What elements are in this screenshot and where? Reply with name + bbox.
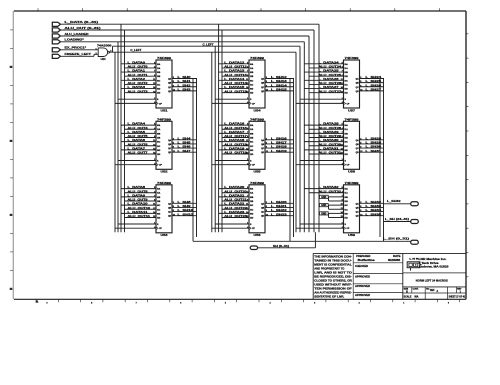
svg-text:REF: REF <box>430 290 435 292</box>
svg-text:L_DATA5: L_DATA5 <box>128 130 146 134</box>
svg-text:I0B: I0B <box>250 133 254 135</box>
svg-text:GND: GND <box>321 197 326 199</box>
svg-text:L_DATA16: L_DATA16 <box>224 122 245 126</box>
svg-text:I0D: I0D <box>345 89 349 91</box>
svg-text:8/26/86: 8/26/86 <box>388 259 401 262</box>
svg-text:ALU_OUT3: ALU_OUT3 <box>128 89 149 93</box>
svg-text:I1A: I1A <box>250 128 254 131</box>
output connector SH (0..31) <box>250 244 289 250</box>
svg-text:I1B: I1B <box>250 201 254 203</box>
svg-text:QA: QA <box>356 78 360 81</box>
svg-text:I0A: I0A <box>157 63 161 66</box>
svg-text:I1B: I1B <box>345 201 349 203</box>
svg-text:ALU_OUT8: ALU_OUT8 <box>128 189 149 193</box>
svg-text:I0D: I0D <box>345 213 349 215</box>
wire C_LEFT (gate output net) <box>110 46 301 232</box>
register U54 74F399 (column 2 row 1) <box>212 56 294 112</box>
svg-text:I0B: I0B <box>157 133 161 135</box>
wire FREEZE_LEFT to U24 pin 2 <box>61 54 99 56</box>
svg-text:ALU_OUT10: ALU_OUT10 <box>128 206 151 210</box>
svg-text:74F399: 74F399 <box>345 181 360 185</box>
svg-text:I1D: I1D <box>157 218 161 220</box>
svg-text:L_DATA4: L_DATA4 <box>128 122 146 126</box>
svg-text:ALU_OUT21: ALU_OUT21 <box>224 198 247 202</box>
svg-text:I1D: I1D <box>345 218 349 220</box>
svg-text:I0A: I0A <box>345 124 349 127</box>
svg-text:APPROVED: APPROVED <box>355 275 370 278</box>
svg-text:ALU_OUT14: ALU_OUT14 <box>224 81 247 85</box>
svg-text:NORM LEFT 24 MACROS: NORM LEFT 24 MACROS <box>416 278 448 282</box>
register U59 74F399 (column 3 row 3) <box>296 181 384 237</box>
svg-text:QC: QC <box>356 212 360 214</box>
svg-text:I0D: I0D <box>250 89 254 91</box>
svg-text:ALU_OUT24: ALU_OUT24 <box>319 65 342 69</box>
wire bus SH (0..31) <box>258 232 316 248</box>
svg-text:ALU_OUT30: ALU_OUT30 <box>319 142 342 146</box>
svg-text:L_DATA9: L_DATA9 <box>128 193 146 197</box>
svg-text:I0A: I0A <box>250 124 254 127</box>
svg-text:I1B: I1B <box>157 137 161 139</box>
svg-text:QC: QC <box>356 87 360 89</box>
size/ref/rev row <box>404 287 462 294</box>
svg-text:ALU_OUT31: ALU_OUT31 <box>319 151 342 155</box>
svg-text:QB: QB <box>168 83 172 85</box>
svg-text:FREEZE_LEFT: FREEZE_LEFT <box>65 52 92 56</box>
svg-text:I0D: I0D <box>157 150 161 152</box>
svg-text:L_DATA27: L_DATA27 <box>319 85 340 89</box>
svg-text:2: 2 <box>359 303 360 305</box>
svg-text:I1C: I1C <box>250 84 254 86</box>
svg-text:I0D: I0D <box>157 89 161 91</box>
svg-text:ALU_OUT12: ALU_OUT12 <box>224 65 247 69</box>
svg-text:I1D: I1D <box>250 154 254 156</box>
svg-text:QA: QA <box>168 139 172 142</box>
svg-text:QB: QB <box>261 207 265 209</box>
svg-text:L_SH4: L_SH4 <box>178 136 192 140</box>
svg-text:QD: QD <box>356 216 360 218</box>
svg-text:SH (0..31): SH (0..31) <box>273 244 289 248</box>
company logo LNR <box>407 259 421 271</box>
svg-text:L_DATA3: L_DATA3 <box>128 85 146 89</box>
svg-text:I0D: I0D <box>250 150 254 152</box>
svg-text:U54: U54 <box>254 108 262 112</box>
output connector L_SH32 <box>387 199 418 206</box>
svg-text:74F399: 74F399 <box>157 56 172 60</box>
svg-text:ALU_OUT7: ALU_OUT7 <box>128 151 149 155</box>
svg-text:I1D: I1D <box>250 218 254 220</box>
svg-text:I1A: I1A <box>157 67 161 70</box>
svg-text:U57: U57 <box>348 108 356 112</box>
svg-text:74F399: 74F399 <box>250 181 265 185</box>
svg-text:SHEET 27 OF 41: SHEET 27 OF 41 <box>449 296 466 299</box>
svg-text:L_DATA22: L_DATA22 <box>224 202 245 206</box>
nand gate U24 74AS000 <box>96 43 113 61</box>
svg-text:ALU_OUT19: ALU_OUT19 <box>224 151 247 155</box>
svg-text:ALU_OUT17: ALU_OUT17 <box>224 134 247 138</box>
input connector P5 EX_PROC1* <box>52 46 87 52</box>
svg-text:U24: U24 <box>101 57 106 61</box>
legal notice text <box>314 255 352 299</box>
svg-text:I0C: I0C <box>157 205 161 207</box>
svg-text:74F399: 74F399 <box>157 181 172 185</box>
input connector P6 FREEZE_LEFT <box>52 52 91 58</box>
output connector L_SH (0..31) <box>383 237 418 245</box>
svg-text:U52: U52 <box>161 170 169 174</box>
svg-text:ALU_OUT18: ALU_OUT18 <box>224 142 247 146</box>
svg-text:ALU_LOADED: ALU_LOADED <box>65 32 89 36</box>
svg-text:ALU_OUT25: ALU_OUT25 <box>319 73 342 77</box>
svg-text:U51: U51 <box>161 108 169 112</box>
svg-text:L_DATA0: L_DATA0 <box>128 60 146 64</box>
svg-text:QB: QB <box>261 144 265 146</box>
svg-text:I1D: I1D <box>250 93 254 95</box>
svg-text:L_SH8: L_SH8 <box>178 200 192 204</box>
register U58 74F399 (column 3 row 2) <box>296 117 384 173</box>
wire bus L_SH (0..31) to output connector <box>193 240 411 242</box>
svg-text:QC: QC <box>356 148 360 150</box>
svg-text:QD: QD <box>168 216 172 218</box>
sheet title <box>416 278 448 282</box>
svg-text:L_DATA8: L_DATA8 <box>128 185 146 189</box>
svg-text:L_DATA18: L_DATA18 <box>224 138 245 142</box>
svg-text:I0B: I0B <box>345 72 349 74</box>
svg-text:I1B: I1B <box>250 137 254 139</box>
svg-text:6: 6 <box>180 303 181 305</box>
svg-text:ALU_OUT9: ALU_OUT9 <box>128 198 149 202</box>
svg-text:ALU_OUT5: ALU_OUT5 <box>128 134 149 138</box>
svg-text:I1C: I1C <box>250 146 254 148</box>
svg-text:I1A: I1A <box>157 192 161 195</box>
svg-text:L_SH18: L_SH18 <box>271 145 288 149</box>
register U52 74F399 (column 1 row 2) <box>115 117 197 173</box>
title block <box>313 253 466 299</box>
svg-text:U59: U59 <box>348 233 356 237</box>
svg-text:L_DATA25: L_DATA25 <box>319 69 340 73</box>
svg-text:I1B: I1B <box>157 201 161 203</box>
svg-text:QA: QA <box>356 139 360 142</box>
svg-text:I0B: I0B <box>157 197 161 199</box>
svg-text:QB: QB <box>168 144 172 146</box>
svg-text:L_SH2: L_SH2 <box>178 83 192 87</box>
company address <box>419 257 450 268</box>
svg-text:L_DATA2: L_DATA2 <box>128 77 146 81</box>
svg-text:U55: U55 <box>254 170 262 174</box>
svg-text:L_DATA21: L_DATA21 <box>224 193 245 197</box>
svg-text:7: 7 <box>136 303 137 305</box>
svg-text:I0C: I0C <box>250 80 254 82</box>
wire L_SH (24..31) to connector <box>384 221 411 223</box>
svg-text:GND: GND <box>321 205 326 207</box>
svg-text:L_SH (0..31): L_SH (0..31) <box>383 237 409 241</box>
register U51 74F399 (column 1 row 1) <box>115 56 197 112</box>
svg-text:QB: QB <box>261 83 265 85</box>
register U56 74F399 (column 2 row 3) <box>212 181 294 237</box>
svg-text:ALU_OUT11: ALU_OUT11 <box>128 214 151 218</box>
svg-text:Andover, MA 01810: Andover, MA 01810 <box>419 266 450 269</box>
svg-text:I1C: I1C <box>345 84 349 86</box>
svg-text:L_SH11: L_SH11 <box>178 212 195 216</box>
svg-text:L_DATA23: L_DATA23 <box>224 210 245 214</box>
register U57 74F399 (column 3 row 1) <box>296 56 384 112</box>
svg-text:GND: GND <box>321 213 326 215</box>
svg-text:L_SH19: L_SH19 <box>271 149 288 153</box>
svg-text:LOADING*: LOADING* <box>65 38 86 42</box>
svg-text:Buffertine: Buffertine <box>358 259 376 262</box>
wire bus ALU_LOADED <box>61 36 310 232</box>
svg-text:I0B: I0B <box>345 197 349 199</box>
svg-text:L_SH7: L_SH7 <box>178 149 192 153</box>
svg-text:74AS000: 74AS000 <box>97 43 112 47</box>
svg-text:QA: QA <box>168 78 172 81</box>
svg-text:L_DATA10: L_DATA10 <box>128 202 149 206</box>
svg-text:I0D: I0D <box>250 213 254 215</box>
svg-text:L_SH16: L_SH16 <box>271 136 288 140</box>
svg-text:I1C: I1C <box>345 209 349 211</box>
svg-text:C_LEFT: C_LEFT <box>130 48 141 52</box>
svg-text:L_DATA12: L_DATA12 <box>224 60 245 64</box>
svg-text:U53: U53 <box>161 233 169 237</box>
output connector L_SH (24..31) <box>385 217 418 224</box>
svg-text:I1C: I1C <box>157 146 161 148</box>
wire bundle column 1 taps <box>115 24 125 232</box>
svg-text:L_SH22: L_SH22 <box>271 208 288 212</box>
svg-text:I1D: I1D <box>345 93 349 95</box>
svg-text:SCALE: SCALE <box>404 296 412 299</box>
svg-text:LNR Machine Inc.: LNR Machine Inc. <box>419 257 447 261</box>
svg-text:U58: U58 <box>348 170 356 174</box>
svg-text:QC: QC <box>261 212 265 214</box>
svg-text:I1B: I1B <box>345 76 349 78</box>
svg-text:L_SH (24..31): L_SH (24..31) <box>385 217 409 221</box>
svg-text:QC: QC <box>261 148 265 150</box>
svg-text:L_SH0: L_SH0 <box>178 75 192 79</box>
svg-text:I0A: I0A <box>157 188 161 191</box>
net label C_LEFT <box>130 48 141 52</box>
svg-text:74F399: 74F399 <box>157 117 172 121</box>
svg-text:I1C: I1C <box>157 84 161 86</box>
svg-text:I1C: I1C <box>345 146 349 148</box>
svg-text:8: 8 <box>91 303 92 305</box>
svg-text:L_DATA11: L_DATA11 <box>128 210 149 214</box>
svg-text:QA: QA <box>261 139 265 142</box>
svg-text:L_SH23: L_SH23 <box>271 212 288 216</box>
svg-text:ALU_OUT4: ALU_OUT4 <box>128 126 149 130</box>
svg-text:I0C: I0C <box>345 205 349 207</box>
svg-text:I1B: I1B <box>250 76 254 78</box>
svg-text:ALU_OUT28: ALU_OUT28 <box>319 126 342 130</box>
svg-text:ALU_OUT6: ALU_OUT6 <box>128 142 149 146</box>
svg-text:I1D: I1D <box>157 154 161 156</box>
svg-text:ALU_OUT29: ALU_OUT29 <box>319 134 342 138</box>
input connector P1 L_DATA (0..31) <box>52 20 98 26</box>
wire L_SH32 to connector <box>384 203 411 205</box>
svg-text:ALU_OUT20: ALU_OUT20 <box>224 189 247 193</box>
svg-text:I0A: I0A <box>345 63 349 66</box>
svg-text:QC: QC <box>168 212 172 214</box>
svg-text:CHECKED: CHECKED <box>355 265 368 268</box>
svg-text:L_SH17: L_SH17 <box>271 141 288 145</box>
svg-text:QC: QC <box>168 87 172 89</box>
svg-text:ALU_OUT13: ALU_OUT13 <box>224 73 247 77</box>
svg-text:SENTATIVE OF LNR.: SENTATIVE OF LNR. <box>314 295 344 299</box>
svg-text:I0C: I0C <box>157 142 161 144</box>
wire L_SH collection column 3 <box>380 78 384 241</box>
register U53 74F399 (column 1 row 3) <box>115 181 197 237</box>
approval table <box>355 255 401 297</box>
svg-text:N/A: N/A <box>415 296 419 299</box>
svg-text:I1A: I1A <box>250 67 254 70</box>
svg-text:L_SH6: L_SH6 <box>178 145 192 149</box>
svg-text:L_SH12: L_SH12 <box>271 75 288 79</box>
wire bus LOADING <box>61 42 305 232</box>
svg-text:APPROVED: APPROVED <box>355 285 370 288</box>
svg-text:I0D: I0D <box>345 150 349 152</box>
svg-text:I0C: I0C <box>250 142 254 144</box>
svg-text:L_DATA20: L_DATA20 <box>224 185 245 189</box>
svg-text:74F399: 74F399 <box>250 117 265 121</box>
register U55 74F399 (column 2 row 2) <box>212 117 294 173</box>
svg-text:I0A: I0A <box>157 124 161 127</box>
svg-text:QD: QD <box>261 216 265 218</box>
svg-text:I1B: I1B <box>345 137 349 139</box>
svg-text:I1A: I1A <box>345 192 349 195</box>
svg-text:I0A: I0A <box>250 63 254 66</box>
svg-text:L_SH3: L_SH3 <box>178 87 192 91</box>
svg-text:CUST.: CUST. <box>413 288 419 290</box>
svg-text:QD: QD <box>261 152 265 154</box>
svg-text:I0B: I0B <box>250 197 254 199</box>
svg-text:74F399: 74F399 <box>345 117 360 121</box>
wire bus L_DATA (0..31) <box>61 24 320 232</box>
svg-text:QB: QB <box>356 144 360 146</box>
svg-text:DATE: DATE <box>393 255 401 258</box>
svg-text:REV: REV <box>457 288 462 290</box>
svg-text:0: 0 <box>448 303 449 305</box>
svg-text:L_DATA1: L_DATA1 <box>128 69 146 73</box>
svg-text:L_DATA26: L_DATA26 <box>319 77 340 81</box>
svg-text:L_DATA17: L_DATA17 <box>224 130 245 134</box>
svg-text:L_SH20: L_SH20 <box>271 200 288 204</box>
input connector P4 LOADING* <box>52 38 85 44</box>
svg-text:EX_PROC1*: EX_PROC1* <box>65 46 88 50</box>
svg-text:3: 3 <box>314 303 315 305</box>
svg-text:ALU_OUT26: ALU_OUT26 <box>319 81 342 85</box>
net label C_LEFT (second) <box>203 42 214 46</box>
svg-text:ALU_OUT23: ALU_OUT23 <box>224 214 247 218</box>
svg-text:C_LEFT: C_LEFT <box>203 42 214 46</box>
svg-text:QD: QD <box>356 152 360 154</box>
svg-text:QC: QC <box>168 148 172 150</box>
svg-text:L_DATA6: L_DATA6 <box>128 138 146 142</box>
svg-text:QB: QB <box>356 207 360 209</box>
svg-text:L_DATA32: L_DATA32 <box>319 185 340 189</box>
wire EX_PROC1 to U24 pin 1 <box>61 49 99 51</box>
svg-text:I0A: I0A <box>345 188 349 191</box>
svg-text:PREPARED: PREPARED <box>356 255 370 258</box>
svg-text:L_DATA29: L_DATA29 <box>319 130 340 134</box>
svg-text:QD: QD <box>168 91 172 93</box>
svg-text:I1C: I1C <box>157 209 161 211</box>
svg-text:NO.: NO. <box>426 288 430 290</box>
svg-text:QD: QD <box>261 91 265 93</box>
svg-text:74F399: 74F399 <box>250 56 265 60</box>
svg-text:QB: QB <box>168 207 172 209</box>
svg-text:L_DATA13: L_DATA13 <box>224 69 245 73</box>
svg-text:8 Tech Drive: 8 Tech Drive <box>419 262 440 265</box>
svg-text:I0C: I0C <box>345 142 349 144</box>
scale/sheet row <box>404 293 466 299</box>
svg-text:9: 9 <box>46 303 47 305</box>
svg-text:L_SH5: L_SH5 <box>178 141 192 145</box>
svg-text:I0D: I0D <box>157 213 161 215</box>
svg-text:U56: U56 <box>254 233 262 237</box>
svg-text:5: 5 <box>225 303 226 305</box>
input connector P3 ALU_LOADED <box>52 32 88 38</box>
svg-text:L_SH1: L_SH1 <box>178 79 192 83</box>
svg-text:ALU_OUT27: ALU_OUT27 <box>319 89 342 93</box>
svg-text:ALU_OUT22: ALU_OUT22 <box>224 206 247 210</box>
svg-text:I1D: I1D <box>157 93 161 95</box>
svg-text:QD: QD <box>168 152 172 154</box>
svg-text:L_DATA28: L_DATA28 <box>319 122 340 126</box>
svg-text:1: 1 <box>403 303 404 305</box>
svg-text:L_DATA24: L_DATA24 <box>319 60 340 64</box>
svg-text:I1A: I1A <box>250 192 254 195</box>
svg-text:L_DATA19: L_DATA19 <box>224 146 245 150</box>
wire bundle column 2 taps <box>212 24 222 232</box>
svg-text:L_SH10: L_SH10 <box>178 208 195 212</box>
svg-text:L_DATA15: L_DATA15 <box>224 85 245 89</box>
svg-text:QA: QA <box>261 78 265 81</box>
svg-text:L_SH15: L_SH15 <box>271 87 288 91</box>
svg-text:L_SH9: L_SH9 <box>178 204 192 208</box>
svg-text:ALU_OUT0: ALU_OUT0 <box>128 65 149 69</box>
svg-text:L_DATA (0..31): L_DATA (0..31) <box>65 20 99 24</box>
svg-text:APPROVED: APPROVED <box>355 294 370 297</box>
svg-text:74F399: 74F399 <box>345 56 360 60</box>
svg-text:QB: QB <box>356 83 360 85</box>
svg-text:L_SH13: L_SH13 <box>271 79 288 83</box>
svg-text:I1A: I1A <box>345 128 349 131</box>
wire L_SH collection column 2 <box>290 78 294 241</box>
svg-text:L_DATA30: L_DATA30 <box>319 138 340 142</box>
svg-text:ALU_OUT32: ALU_OUT32 <box>319 189 342 193</box>
wire L_SH collection column 1 <box>193 78 197 241</box>
svg-text:L_SH32: L_SH32 <box>387 199 401 203</box>
svg-text:QC: QC <box>261 87 265 89</box>
svg-text:I0C: I0C <box>345 80 349 82</box>
svg-text:I1D: I1D <box>345 154 349 156</box>
svg-text:I1A: I1A <box>157 128 161 131</box>
svg-text:I0A: I0A <box>250 188 254 191</box>
svg-text:I0B: I0B <box>250 72 254 74</box>
svg-text:I1C: I1C <box>250 209 254 211</box>
svg-text:QA: QA <box>168 202 172 205</box>
svg-text:ALU_OUT15: ALU_OUT15 <box>224 89 247 93</box>
wire bus ALU_OUT (0..31) <box>61 30 315 232</box>
svg-text:ALU_OUT1: ALU_OUT1 <box>128 73 149 77</box>
svg-text:L_SH21: L_SH21 <box>271 204 288 208</box>
svg-text:ALU_OUT (0..31): ALU_OUT (0..31) <box>65 26 101 30</box>
svg-text:QA: QA <box>261 202 265 205</box>
svg-text:SIZE: SIZE <box>404 288 409 290</box>
svg-text:I0C: I0C <box>250 205 254 207</box>
svg-text:I1A: I1A <box>345 67 349 70</box>
svg-text:L_SH14: L_SH14 <box>271 83 288 87</box>
svg-text:L_DATA31: L_DATA31 <box>319 146 340 150</box>
svg-text:I1B: I1B <box>157 76 161 78</box>
svg-text:QD: QD <box>356 91 360 93</box>
